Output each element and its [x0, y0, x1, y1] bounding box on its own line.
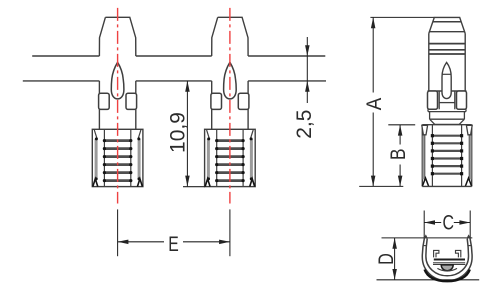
svg-text:B: B [387, 148, 410, 160]
svg-text:D: D [375, 253, 398, 265]
svg-text:A: A [363, 98, 386, 111]
svg-text:C: C [442, 212, 454, 235]
svg-text:E: E [168, 233, 179, 256]
svg-text:2,5: 2,5 [293, 110, 316, 139]
svg-text:10,9: 10,9 [167, 112, 190, 153]
